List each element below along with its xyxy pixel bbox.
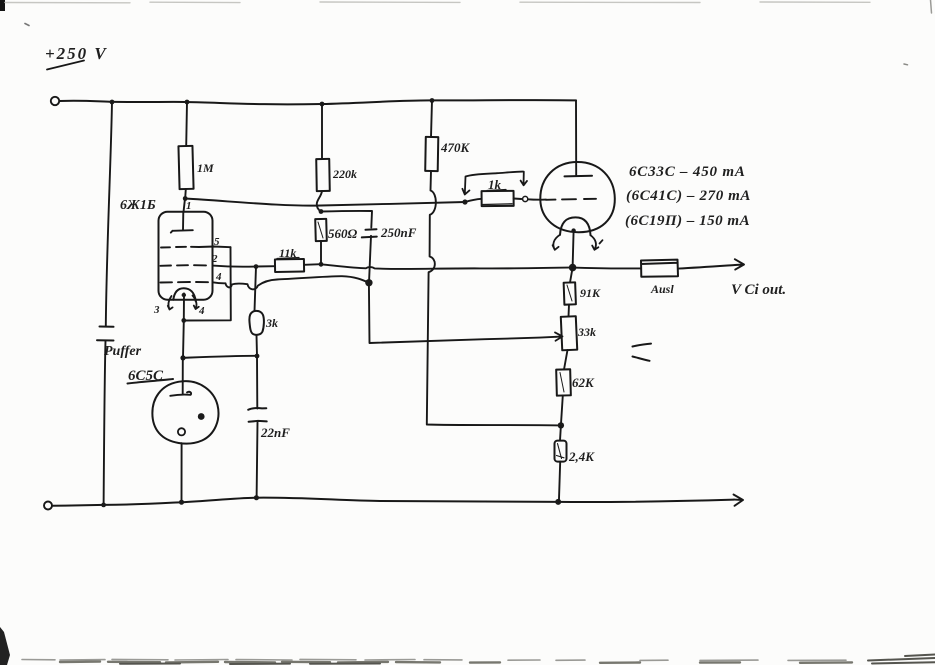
wire node B down and to 33k arrow (369, 283, 556, 343)
svg-text:3k: 3k (265, 316, 278, 330)
junction node grid-row / 1M (183, 196, 188, 201)
svg-text:V Сi out.: V Сi out. (731, 282, 786, 298)
svg-text:33k: 33k (577, 325, 596, 339)
resistor R 62K squiggle (560, 373, 564, 393)
capacitor Puffer (97, 327, 114, 341)
terminal bottom-left (44, 502, 52, 510)
svg-text:Puffer: Puffer (104, 344, 142, 359)
scanner wedge bottom-left (0, 627, 10, 665)
tube V2 top lead (182, 358, 184, 394)
svg-text:1M: 1M (197, 161, 214, 175)
wire left column lower (104, 341, 106, 506)
junction bottom rail / 2.4K (555, 499, 561, 505)
junction bottom rail / left column (101, 503, 106, 508)
wire 22nF top lead (256, 356, 258, 409)
wire pot right lead (514, 198, 522, 201)
potentiometer 1k inner line (483, 203, 512, 206)
tube V1 grid g5 dashes (161, 246, 199, 249)
tube V3 6C33C envelope (540, 162, 615, 232)
junction top rail / 220k (320, 102, 325, 107)
wire 470k top lead (431, 101, 432, 138)
svg-text:Аusl: Аusl (650, 282, 674, 296)
tube V2 6C5C envelope (152, 381, 218, 443)
resistor R 11k (275, 259, 304, 272)
scanner line top edge (5, 1, 870, 4)
underline of +250V (47, 61, 84, 70)
heater arrow right (193, 296, 199, 310)
tube V3 anode plate (565, 175, 593, 178)
arrowhead into 33k (555, 332, 563, 340)
wire 560 bottom lead (320, 241, 322, 264)
wire left column upper (106, 102, 112, 326)
svg-text:62K: 62K (572, 375, 595, 390)
wire 3k bottom lead (256, 335, 259, 356)
svg-text:(6С19П) – 150 mA: (6С19П) – 150 mA (625, 213, 750, 229)
scanner speck right (904, 63, 908, 66)
capacitor C 22nF (248, 408, 267, 422)
resistor R 3k (249, 311, 264, 335)
svg-text:4: 4 (198, 305, 205, 317)
junction top rail / 470k (430, 98, 435, 103)
scanner mark top-left corner (0, 0, 5, 11)
svg-text:91K: 91K (580, 286, 601, 300)
svg-text:6С33С – 450 mA: 6С33С – 450 mA (629, 164, 746, 180)
scanner mark top-right (931, 0, 932, 13)
junction cathode row left (180, 355, 185, 360)
resistor R 220k (316, 159, 330, 191)
wire grid row (1M to pot) (185, 199, 465, 206)
resistor R 2.4K squiggle (557, 444, 565, 459)
junction bottom rail / V2 (179, 500, 184, 505)
svg-text:220k: 220k (332, 167, 357, 181)
svg-text:3: 3 (153, 304, 160, 316)
wire 470k long feedback (hops rows) (427, 171, 561, 425)
junction top rail / 1M (185, 100, 190, 105)
junction top rail / left column (110, 100, 115, 105)
svg-text:22nF: 22nF (260, 425, 290, 440)
tube V2 dot (198, 413, 205, 420)
scanner speck (25, 24, 29, 26)
wire pot to tube grid (528, 198, 546, 200)
tube V1 grid g5 exit wire (199, 246, 231, 249)
label 6C5C underline (128, 379, 174, 384)
wire 220k bottom lead (317, 191, 322, 212)
pot wiper bracket with arrows (462, 172, 527, 195)
tube V2 bottom lead (181, 443, 183, 502)
wire pin1 stub (184, 199, 186, 213)
terminal +250V input (51, 97, 59, 105)
wire bottom rail (52, 498, 734, 506)
svg-text:470K: 470K (440, 140, 471, 155)
wire bracket g5-cathode (184, 247, 231, 320)
heater arrow left (168, 296, 173, 310)
junction output node (bold) (569, 264, 577, 272)
wire 33k-62K lead (564, 350, 568, 370)
junction pot left (462, 199, 467, 204)
svg-text:1: 1 (186, 200, 192, 212)
label 1k underline (487, 190, 506, 191)
wire 3k top lead (255, 267, 257, 311)
svg-text:2: 2 (211, 253, 218, 265)
label 11k underline (277, 258, 299, 259)
svg-text:+250 V: +250 V (45, 44, 108, 63)
equals mark (633, 344, 652, 361)
output series box (641, 260, 678, 277)
resistor R 62K (556, 369, 571, 395)
wire 91K-33k lead (568, 305, 571, 317)
resistor R 560 (315, 219, 327, 241)
junction bottom rail / 22nF (254, 495, 259, 500)
junction row A / 560 (319, 262, 324, 267)
heater arrow V3 left (553, 235, 560, 250)
junction node 560 top (319, 209, 324, 214)
resistor R 1M (178, 146, 193, 189)
tube V3 cathode dot (571, 228, 575, 232)
wire 1M bottom lead (184, 189, 187, 198)
wire top rail (59, 100, 576, 104)
wire 2.4K bottom lead (559, 462, 560, 502)
resistor R 560 squiggle (318, 222, 323, 238)
resistor R 91K (564, 282, 576, 304)
wire 2.4K top lead (559, 425, 562, 440)
tube V1 6Zh1B envelope (159, 212, 213, 300)
resistor R 33k (561, 316, 577, 350)
wire row B pin7 to node (213, 276, 369, 289)
tube V3 grid dashes (546, 199, 596, 200)
scanner band bottom edge (22, 659, 846, 660)
junction row A / 3k (254, 264, 259, 269)
wire output node to box (573, 267, 641, 270)
wire cathode-row horizontal (184, 356, 258, 358)
tube V1 grid g2 dashes (161, 264, 207, 267)
svg-text:5: 5 (214, 236, 220, 248)
resistor R 91K squiggle (567, 285, 572, 301)
wire 62K bottom lead (561, 396, 563, 426)
wire 22nF bottom lead (256, 422, 259, 497)
wire 250nF bottom lead (369, 236, 371, 283)
tube V1 cathode arc (173, 288, 196, 301)
junction cathode row right (255, 354, 260, 359)
wire pot left lead (465, 199, 482, 202)
svg-text:(6С41С) – 270 mA: (6С41С) – 270 mA (626, 188, 751, 204)
svg-text:560Ω: 560Ω (328, 226, 358, 241)
resistor R 2.4K (555, 441, 567, 462)
wire 1M top lead (185, 102, 188, 146)
svg-text:4: 4 (215, 271, 222, 283)
tube V3 cathode arc (560, 217, 591, 235)
tube V1 grid g7 dashes (161, 281, 209, 284)
pot right terminal circle (523, 196, 528, 201)
svg-text:6Ж1Б: 6Ж1Б (120, 198, 156, 213)
svg-text:250nF: 250nF (380, 225, 417, 240)
resistor R 470k (425, 137, 438, 171)
tube V1 cathode blob (182, 293, 186, 297)
wire row A 11k to node560 (304, 263, 321, 266)
tube V1 cathode lead (183, 294, 185, 321)
wire output arrow (678, 259, 744, 269)
heater arrow V3 right (591, 235, 603, 250)
wire 91K top lead (570, 268, 573, 283)
junction cathode/bracket (181, 318, 186, 323)
wire 220k top lead (321, 104, 323, 159)
arrowhead bottom rail (734, 495, 744, 506)
svg-text:2,4K: 2,4K (568, 449, 595, 464)
junction V2 top (181, 356, 185, 360)
tube V1 anode (171, 212, 193, 233)
tube V2 plate (170, 392, 191, 396)
junction row B / 250nF lead (bold) (365, 279, 372, 286)
wire V1 cathode down to row (182, 321, 185, 358)
junction 62K/2.4K node (bold) (558, 422, 564, 428)
wire node to 250nF stub (321, 211, 372, 228)
tube V2 small circle (178, 428, 185, 435)
potentiometer 1k body (482, 191, 514, 206)
tube V3 cathode lead (573, 231, 574, 268)
wire anode 6C33C from rail (575, 100, 577, 176)
wire row A pin2 to 11k (213, 266, 275, 267)
capacitor C 250nF (362, 229, 377, 237)
wire row A node560 to output node (321, 264, 573, 269)
